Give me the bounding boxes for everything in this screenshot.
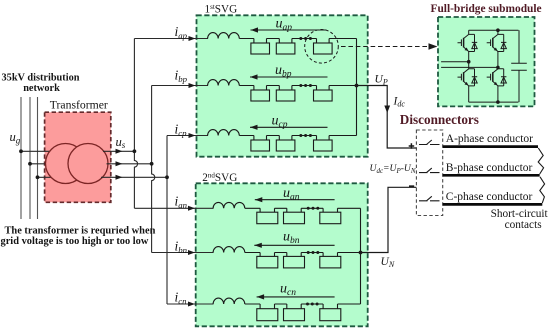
submodule SM an3 — [320, 212, 341, 224]
svg-text:Transformer: Transformer — [50, 98, 108, 111]
wire vertical phase b with hop over phase-c wire — [152, 86, 155, 253]
svg-text:iap: iap — [175, 24, 188, 40]
node phase c tap — [165, 175, 169, 179]
svg-text:network: network — [23, 83, 60, 94]
svg-text:Udc=UP-UN: Udc=UP-UN — [370, 163, 416, 175]
wire full-bridge top rail — [469, 29, 519, 31]
svg-text:icp: icp — [175, 122, 188, 138]
minus terminal — [409, 185, 414, 187]
arrowhead ucp — [250, 125, 258, 130]
IGBT Q3 with diode D3 — [458, 69, 478, 86]
switch SW C — [419, 196, 440, 201]
arrowhead ibn — [188, 250, 195, 255]
wire vertical phase c — [166, 136, 168, 305]
wire phase-b chain bus — [239, 85, 356, 87]
wire SVG1 right dc bus — [356, 39, 358, 136]
arrow line uap — [251, 29, 327, 31]
dashed wire to full-bridge submodule — [341, 46, 429, 48]
svg-text:B-phase conductor: B-phase conductor — [446, 162, 533, 174]
transformer T1 winding 2 — [68, 144, 108, 184]
node phase b tap — [150, 162, 154, 166]
ellipsis phase c — [299, 134, 302, 137]
inductor Lan — [213, 202, 245, 208]
wire UN to disconnectors negative — [361, 187, 417, 252]
arrowhead icn — [188, 302, 195, 307]
svg-text:ian: ian — [175, 194, 188, 210]
capacitor C1 — [511, 30, 527, 102]
ellipsis phase bn — [307, 251, 310, 254]
switch SW B — [419, 168, 440, 173]
short-circuit contact zigzag B-C — [540, 177, 545, 203]
SVG converter box 1 — [197, 15, 368, 156]
node full-bridge top rail — [496, 28, 500, 32]
wire ibn feed — [152, 252, 214, 254]
svg-text:C-phase conductor: C-phase conductor — [446, 191, 533, 203]
submodule SM c2 — [276, 140, 295, 151]
ellipsis phase an — [307, 207, 310, 210]
arrow line ucp — [250, 126, 328, 128]
arrowhead uap — [251, 27, 259, 32]
inductor Lcp — [208, 130, 240, 136]
wire full-bridge bottom rail — [469, 101, 519, 103]
wire phase-cn chain bus — [245, 303, 361, 305]
wire full-bridge left leg — [468, 30, 470, 102]
wire phase-an chain bus — [245, 207, 361, 209]
transformer T1 winding 1 — [46, 144, 86, 184]
SVG converter box 2 — [196, 183, 368, 326]
inductor Lbp — [208, 80, 240, 86]
ellipsis phase b — [299, 84, 302, 87]
svg-text:ug: ug — [10, 130, 21, 145]
submodule SM an1 — [257, 212, 278, 224]
submodule SM an2 — [284, 212, 305, 224]
submodule SM cn1 — [257, 309, 278, 321]
submodule SM a2 — [276, 43, 295, 54]
node ac terminal 1 — [467, 60, 471, 64]
node UP junction — [355, 84, 359, 88]
submodule SM b2 — [276, 90, 295, 101]
dashed circle highlight around SM a3 — [305, 30, 339, 64]
wire ibp feed — [152, 85, 208, 87]
full-bridge submodule box U1 — [438, 17, 535, 106]
svg-text:contacts: contacts — [505, 219, 542, 231]
svg-text:Idc: Idc — [393, 95, 406, 108]
arrow line ucn — [257, 296, 335, 298]
arrowhead ubn — [254, 243, 261, 248]
wire icn feed — [167, 303, 214, 305]
wire ac terminal 1 — [441, 61, 469, 63]
arrowhead ibp — [189, 83, 196, 88]
arrowhead ucn — [257, 294, 265, 299]
IGBT Q4 with diode D4 — [487, 69, 507, 86]
IGBT Q1 with diode D1 — [458, 34, 478, 51]
svg-text:The transformer is requried wh: The transformer is requried when — [5, 226, 156, 237]
node UN junction — [359, 251, 363, 255]
svg-text:1stSVG: 1stSVG — [205, 3, 238, 16]
svg-text:us: us — [116, 135, 126, 150]
submodule SM bn2 — [284, 256, 305, 268]
submodule SM bn1 — [257, 256, 278, 268]
submodule SM c1 — [251, 140, 270, 151]
arrow line ubn — [254, 244, 334, 246]
wire phase-bn chain bus — [245, 252, 361, 254]
submodule SM a1 — [251, 43, 270, 54]
wire icp feed — [167, 135, 208, 137]
submodule SM b3 — [314, 90, 333, 101]
wire full-bridge right leg — [497, 30, 499, 102]
node grid phase 3 — [36, 175, 40, 179]
svg-text:2ndSVG: 2ndSVG — [202, 171, 237, 184]
short-circuit contact zigzag A-B — [538, 148, 543, 174]
svg-text:Full-bridge submodule: Full-bridge submodule — [431, 3, 542, 15]
grid bus line 2 — [29, 97, 31, 219]
inductor Lap — [208, 33, 240, 39]
svg-text:A-phase conductor: A-phase conductor — [446, 133, 533, 145]
arrowhead iap — [189, 36, 196, 41]
arrowhead us phase 1 — [116, 149, 123, 154]
ellipsis phase cn — [306, 303, 309, 306]
B-phase conductor line — [443, 174, 540, 177]
node grid phase 2 — [28, 162, 32, 166]
wire UP to disconnectors positive — [357, 86, 417, 149]
switch SW A — [419, 140, 440, 145]
wire us phase 3 — [101, 176, 167, 178]
arrow line ubp — [250, 76, 328, 78]
arrowhead Idc current — [384, 106, 390, 114]
wire ian feed — [134, 207, 213, 209]
grid bus line 3 — [37, 97, 39, 219]
svg-text:UN: UN — [381, 256, 395, 269]
transformer box T1 — [45, 112, 111, 202]
arrowhead uan — [255, 197, 262, 202]
node full-bridge bottom rail — [496, 100, 500, 104]
inductor Lbn — [213, 247, 245, 253]
svg-text:UP: UP — [375, 74, 388, 87]
submodule SM c3 — [314, 140, 333, 151]
grid bus line 1 — [20, 97, 22, 219]
arrowhead ubp — [250, 74, 258, 79]
disconnectors box S1 — [416, 130, 442, 216]
arrowhead ian — [188, 206, 195, 211]
plus terminal — [409, 143, 415, 149]
node phase a tap — [133, 149, 137, 153]
ellipsis phase a — [299, 37, 302, 40]
svg-text:35kV distribution: 35kV distribution — [2, 73, 80, 84]
submodule SM cn3 — [320, 309, 341, 321]
wire phase-c chain bus — [239, 135, 356, 137]
svg-text:grid voltage is too high or to: grid voltage is too high or too low — [1, 236, 149, 247]
A-phase conductor line — [443, 145, 538, 148]
wire grid to transformer phase 2 — [30, 163, 52, 165]
C-phase conductor line — [443, 203, 543, 206]
wire grid to transformer phase 3 — [38, 176, 59, 178]
IGBT Q2 with diode D2 — [487, 34, 507, 51]
wire grid to transformer phase 1 — [21, 150, 58, 152]
submodule SM cn2 — [284, 309, 305, 321]
arrow line uan — [255, 199, 335, 201]
arrowhead dashed wire — [429, 43, 438, 49]
arrowhead icp — [189, 133, 196, 138]
wire us phase 1 — [103, 150, 134, 152]
svg-text:Disconnectors: Disconnectors — [400, 112, 479, 127]
submodule SM bn3 — [320, 256, 341, 268]
wire iap feed — [134, 38, 208, 40]
arrowhead us phase 2 — [116, 161, 123, 166]
wire us phase 2 — [107, 163, 152, 165]
wire ac terminal 2 — [441, 66, 498, 68]
inductor Lcn — [213, 298, 245, 304]
wire vertical phase a with hop over phase-b wire — [134, 39, 137, 209]
wire phase-a chain bus — [239, 38, 356, 40]
submodule SM b1 — [251, 90, 270, 101]
node ac terminal 2 — [496, 66, 500, 70]
arrowhead us phase 3 — [116, 175, 123, 180]
submodule SM a3 — [314, 43, 333, 54]
svg-text:ibn: ibn — [175, 239, 188, 255]
svg-text:ibp: ibp — [175, 68, 188, 84]
wire SVG2 right dc bus — [360, 208, 362, 304]
svg-text:icn: icn — [175, 290, 188, 306]
node grid phase 1 — [19, 149, 23, 153]
